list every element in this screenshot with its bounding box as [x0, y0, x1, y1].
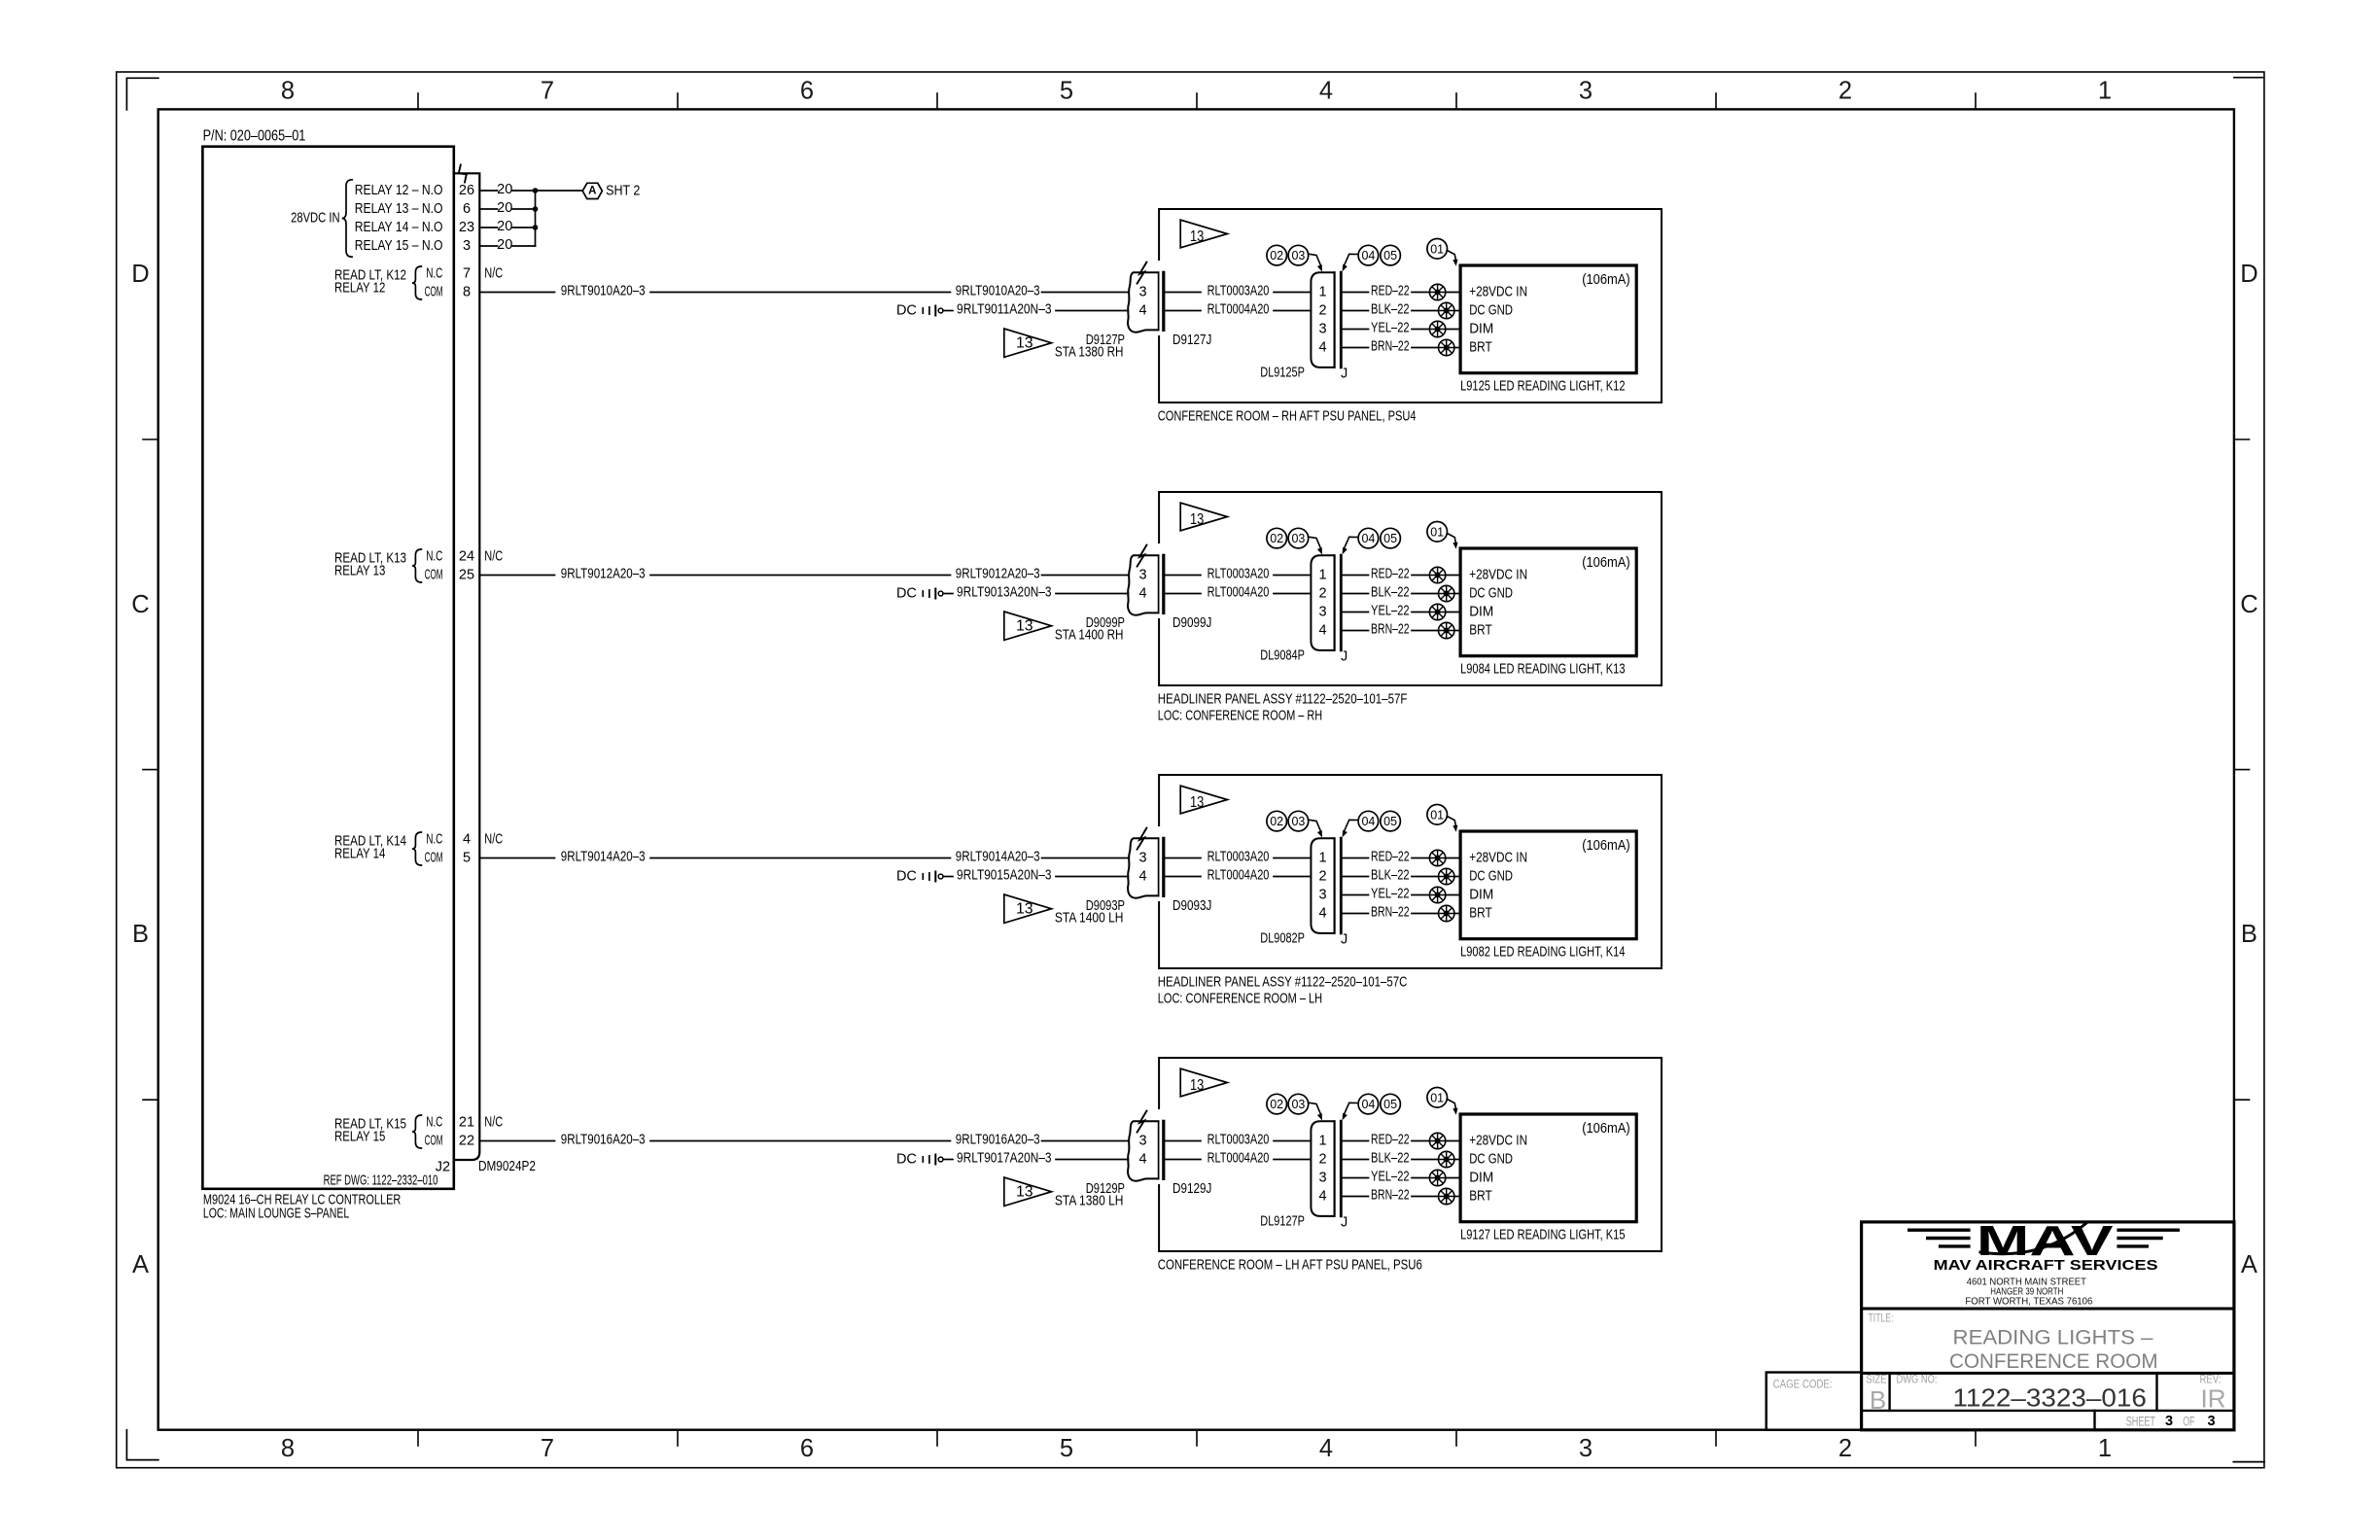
svg-text:8: 8 [281, 78, 295, 105]
wire RED-22 segment [1342, 575, 1369, 577]
shield termination symbol on YEL-22 [1429, 887, 1445, 902]
zone tick right [2234, 769, 2250, 771]
connector DL9084P body [1311, 555, 1334, 650]
wire 9RLT9012A20-3 continues [650, 575, 951, 577]
wire RLT0003A20 to DL connector [1274, 292, 1311, 294]
svg-text:25: 25 [459, 568, 474, 583]
svg-text:D: D [2240, 261, 2257, 288]
wire pin 3 segment to bus [512, 245, 535, 247]
svg-text:4: 4 [1318, 906, 1326, 922]
svg-text:3: 3 [2165, 1414, 2173, 1429]
svg-text:9RLT9012A20–3: 9RLT9012A20–3 [561, 566, 646, 581]
shield termination symbol on BLK-22 [1439, 868, 1454, 884]
shield termination symbol on RED-22 [1429, 284, 1445, 299]
svg-text:SHT 2: SHT 2 [606, 183, 640, 198]
zone tick bottom [936, 1430, 938, 1446]
flag note 13 (station) [1004, 1177, 1052, 1206]
shield termination symbol on BLK-22 [1439, 585, 1454, 601]
svg-text:2: 2 [1318, 1152, 1326, 1168]
enclosure panel box (HEADLINER PANEL ASSY #1122-2520-101-57F) [1159, 492, 1662, 685]
wire YEL-22 into LED light [1446, 1177, 1460, 1179]
svg-text:04: 04 [1361, 249, 1375, 262]
svg-text:13: 13 [1016, 1184, 1033, 1201]
wire YEL-22 segment [1342, 1177, 1369, 1179]
svg-text:DL9125P: DL9125P [1260, 366, 1305, 381]
zone tick left [143, 769, 158, 771]
connector D9099P torn-sheet symbol [1128, 555, 1158, 614]
svg-text:+28VDC IN: +28VDC IN [1469, 851, 1527, 866]
zone tick top [677, 93, 679, 109]
svg-text:20: 20 [497, 200, 512, 216]
flag note 13 (panel) [1180, 786, 1227, 814]
wire RED-22 into LED light [1446, 292, 1460, 294]
svg-text:CAGE CODE:: CAGE CODE: [1773, 1380, 1833, 1391]
svg-text:02: 02 [1270, 532, 1283, 545]
leader from balloon 04 [1345, 537, 1358, 547]
svg-text:DL9084P: DL9084P [1260, 648, 1305, 664]
wire BLK-22 to shield symbol [1412, 876, 1439, 878]
svg-text:N.C: N.C [426, 832, 442, 848]
wire YEL-22 into LED light [1446, 894, 1460, 896]
svg-text:BRN–22: BRN–22 [1371, 1187, 1410, 1203]
svg-text:RLT0004A20: RLT0004A20 [1207, 1150, 1270, 1166]
connector DL9082P body [1311, 838, 1334, 933]
zone tick bottom [1455, 1430, 1457, 1446]
LED reading light box L9125 [1460, 265, 1636, 373]
wire RLT0003A20 to DL connector [1274, 857, 1311, 859]
wire RLT0003A20 segment [1166, 575, 1201, 577]
size cell divider [1888, 1373, 1890, 1411]
wire RLT0004A20 segment [1166, 1159, 1201, 1161]
wire pin 23 segment [479, 227, 497, 228]
svg-text:DIM: DIM [1469, 1171, 1493, 1186]
svg-text:1: 1 [1318, 285, 1326, 300]
svg-text:1: 1 [1318, 1134, 1326, 1149]
leader from balloon 03 [1309, 537, 1321, 548]
item balloon 03 [1288, 245, 1309, 265]
svg-text:B: B [2241, 921, 2257, 948]
svg-text:L9125 LED READING LIGHT, K12: L9125 LED READING LIGHT, K12 [1460, 379, 1625, 395]
wire BRN-22 segment [1342, 630, 1369, 632]
svg-text:YEL–22: YEL–22 [1371, 886, 1410, 901]
svg-text:9RLT9015A20N–3: 9RLT9015A20N–3 [957, 867, 1052, 883]
wire RED-22 into LED light [1446, 857, 1460, 859]
break symbol on torn-sheet connector [1137, 262, 1147, 284]
item balloon 04 [1358, 528, 1379, 548]
svg-text:RELAY 13: RELAY 13 [334, 564, 385, 579]
svg-text:D: D [131, 261, 149, 288]
item balloon 05 [1381, 811, 1401, 831]
svg-text:5: 5 [463, 851, 471, 866]
wire RED-22 to shield symbol [1412, 575, 1429, 577]
svg-text:RLT0003A20: RLT0003A20 [1207, 849, 1270, 864]
connector interface bars D9129P/D9129J [1158, 1121, 1160, 1178]
item balloon 05 [1381, 245, 1401, 265]
leader from balloon 04 [1345, 254, 1358, 264]
svg-text:D9093J: D9093J [1172, 898, 1211, 914]
svg-text:N/C: N/C [484, 1115, 503, 1131]
wire BLK-22 segment [1342, 1159, 1369, 1161]
svg-text:7: 7 [541, 78, 554, 105]
wire from DC symbol [943, 310, 953, 312]
wire 9RLT9012A20-3 from controller [479, 575, 554, 577]
item balloon 03 [1288, 1094, 1309, 1114]
break symbol at strip top [459, 165, 467, 183]
wire RED-22 segment [1342, 292, 1369, 294]
wire BRN-22 into LED light [1454, 913, 1460, 915]
corner trim mark bottom-right [2233, 1461, 2264, 1463]
wire YEL-22 into LED light [1446, 329, 1460, 331]
svg-text:SIZE: SIZE [1866, 1375, 1886, 1386]
svg-text:N.C: N.C [426, 266, 442, 282]
svg-text:1: 1 [2098, 78, 2112, 105]
connector D9129P torn-sheet symbol [1128, 1121, 1158, 1180]
svg-text:RELAY 15 – N.O: RELAY 15 – N.O [355, 238, 443, 254]
svg-text:N/C: N/C [484, 832, 503, 848]
svg-text:+28VDC IN: +28VDC IN [1469, 285, 1527, 300]
enclosure panel box (HEADLINER PANEL ASSY #1122-2520-101-57C) [1159, 775, 1662, 968]
svg-text:9RLT9010A20–3: 9RLT9010A20–3 [561, 283, 646, 298]
item balloon 04 [1358, 811, 1379, 831]
svg-text:RLT0004A20: RLT0004A20 [1207, 867, 1270, 883]
svg-text:LOC: MAIN LOUNGE S–PANEL: LOC: MAIN LOUNGE S–PANEL [203, 1207, 349, 1222]
svg-text:C: C [131, 591, 149, 618]
flag note 13 (panel) [1180, 220, 1227, 248]
svg-text:A: A [588, 186, 596, 197]
svg-text:01: 01 [1430, 525, 1444, 539]
leader from balloon 03 [1309, 254, 1321, 265]
wire 9RLT9010A20-3 continues [650, 292, 951, 294]
connector D9127P torn-sheet symbol [1128, 272, 1158, 332]
item balloon 04 [1358, 245, 1379, 265]
title block line above dwg row [1862, 1372, 2234, 1375]
wire 9RLT9013A20N-3 to connector [1056, 593, 1129, 595]
wire YEL-22 segment [1342, 612, 1369, 613]
svg-text:RLT0003A20: RLT0003A20 [1207, 566, 1270, 581]
item balloon 01 [1427, 805, 1448, 825]
svg-text:RED–22: RED–22 [1371, 283, 1410, 298]
svg-text:21: 21 [459, 1115, 474, 1131]
svg-text:HEADLINER PANEL ASSY #1122–252: HEADLINER PANEL ASSY #1122–2520–101–57C [1158, 974, 1408, 990]
brace for K14 contacts [412, 832, 422, 865]
svg-text:DIM: DIM [1469, 605, 1493, 620]
svg-text:01: 01 [1430, 1091, 1444, 1104]
wire BRN-22 to shield symbol [1412, 630, 1439, 632]
brace for K15 contacts [412, 1115, 422, 1148]
wire RED-22 to shield symbol [1412, 1140, 1429, 1142]
svg-text:BLK–22: BLK–22 [1371, 867, 1410, 883]
svg-text:4: 4 [1139, 869, 1147, 885]
svg-text:9RLT9012A20–3: 9RLT9012A20–3 [956, 566, 1040, 581]
svg-text:8: 8 [281, 1435, 295, 1462]
zone tick top [1196, 93, 1198, 109]
svg-text:4: 4 [1139, 1152, 1147, 1168]
wire RLT0004A20 to DL connector [1274, 1159, 1311, 1161]
svg-text:BLK–22: BLK–22 [1371, 584, 1410, 600]
svg-text:BRT: BRT [1469, 340, 1492, 356]
svg-text:1122–3323–016: 1122–3323–016 [1953, 1382, 2147, 1412]
svg-text:BLK–22: BLK–22 [1371, 1150, 1410, 1166]
svg-text:01: 01 [1430, 242, 1444, 256]
svg-text:9RLT9017A20N–3: 9RLT9017A20N–3 [957, 1150, 1052, 1166]
svg-text:6: 6 [800, 78, 814, 105]
svg-text:20: 20 [497, 182, 512, 197]
leader from balloon 01 [1447, 534, 1455, 543]
leader from balloon 01 [1447, 817, 1455, 826]
svg-text:20: 20 [497, 219, 512, 234]
svg-text:9RLT9011A20N–3: 9RLT9011A20N–3 [957, 301, 1052, 317]
svg-text:03: 03 [1291, 249, 1305, 262]
svg-text:04: 04 [1361, 1098, 1375, 1111]
leader from balloon 03 [1309, 820, 1321, 831]
svg-text:13: 13 [1190, 1077, 1204, 1094]
svg-text:9RLT9016A20–3: 9RLT9016A20–3 [956, 1132, 1040, 1147]
svg-text:4: 4 [1318, 340, 1326, 356]
zone tick bottom [417, 1430, 419, 1446]
svg-text:BRT: BRT [1469, 906, 1492, 922]
svg-text:OF: OF [2183, 1414, 2194, 1428]
wire BRN-22 to shield symbol [1412, 913, 1439, 915]
break symbol on torn-sheet connector [1137, 1111, 1147, 1133]
svg-text:03: 03 [1291, 815, 1305, 828]
DC ground stack symbol [922, 1157, 924, 1162]
junction dot row 23 [533, 225, 539, 230]
wire 9RLT9016A20-3 from controller [479, 1140, 554, 1142]
shield termination symbol on BLK-22 [1439, 302, 1454, 318]
svg-text:N/C: N/C [484, 266, 503, 282]
svg-text:3: 3 [1139, 1134, 1147, 1149]
connector DL9127P body [1311, 1121, 1334, 1216]
wire 9RLT9015A20N-3 to connector [1056, 876, 1129, 878]
wire YEL-22 to shield symbol [1412, 329, 1429, 331]
wire BRN-22 into LED light [1454, 347, 1460, 349]
svg-text:DIM: DIM [1469, 322, 1493, 337]
flag note 13 (station) [1004, 612, 1052, 640]
wire RLT0004A20 segment [1166, 593, 1201, 595]
svg-text:3: 3 [1579, 78, 1592, 105]
svg-text:3: 3 [463, 238, 471, 254]
svg-text:CONFERENCE ROOM – RH AFT PSU P: CONFERENCE ROOM – RH AFT PSU PANEL, PSU4 [1158, 408, 1417, 424]
svg-text:CONFERENCE ROOM – LH AFT PSU: CONFERENCE ROOM – LH AFT PSU PANEL, PSU6 [1158, 1257, 1422, 1273]
svg-text:7: 7 [463, 266, 471, 282]
svg-text:DC GND: DC GND [1469, 1152, 1513, 1168]
wire 9RLT9010A20-3 to connector [1042, 292, 1129, 294]
svg-text:YEL–22: YEL–22 [1371, 320, 1410, 335]
wire BLK-22 into LED light [1454, 876, 1460, 878]
svg-text:RELAY 14: RELAY 14 [334, 847, 385, 862]
bus wire vertical [535, 191, 537, 246]
svg-text:13: 13 [1016, 901, 1033, 918]
corner trim mark bottom-left [126, 1430, 158, 1460]
svg-text:5: 5 [1060, 78, 1073, 105]
svg-text:N.C: N.C [426, 1115, 442, 1131]
shield termination symbol on RED-22 [1429, 567, 1445, 582]
svg-text:2: 2 [1838, 78, 1852, 105]
title block line under dwg row [1862, 1410, 2234, 1412]
svg-text:LOC: CONFERENCE ROOM – LH: LOC: CONFERENCE ROOM – LH [1158, 991, 1322, 1006]
item balloon 02 [1267, 1094, 1287, 1114]
svg-text:3: 3 [1139, 851, 1147, 866]
svg-text:COM: COM [425, 285, 443, 300]
enclosure panel box (CONFERENCE ROOM - LH AFT PSU PANEL, PSU6) [1159, 1058, 1662, 1251]
svg-text:20: 20 [497, 237, 512, 253]
svg-text:02: 02 [1270, 249, 1283, 262]
wire BLK-22 to shield symbol [1412, 1159, 1439, 1161]
wire BLK-22 segment [1342, 876, 1369, 878]
connector D9093P torn-sheet symbol [1128, 838, 1158, 897]
zone tick top [1455, 93, 1457, 109]
flag note 13 (panel) [1180, 1068, 1227, 1097]
svg-text:1: 1 [1318, 568, 1326, 583]
shield termination symbol on BRN-22 [1439, 905, 1454, 921]
wire RLT0004A20 segment [1166, 310, 1201, 312]
svg-text:J: J [1341, 1214, 1347, 1230]
svg-text:04: 04 [1361, 815, 1375, 828]
zone tick left [143, 438, 158, 440]
svg-text:3: 3 [1318, 605, 1326, 620]
svg-text:D9099J: D9099J [1172, 615, 1211, 631]
svg-text:7: 7 [541, 1435, 554, 1462]
svg-text:RELAY 13 – N.O: RELAY 13 – N.O [355, 201, 443, 217]
svg-text:N/C: N/C [484, 549, 503, 565]
wire pin 6 segment to bus [512, 208, 535, 210]
svg-text:REF DWG: 1122–2332–010: REF DWG: 1122–2332–010 [324, 1173, 438, 1189]
corner trim mark top-left [126, 78, 158, 110]
svg-text:05: 05 [1383, 1098, 1397, 1111]
connector interface bars DL/J [1334, 555, 1336, 650]
svg-text:02: 02 [1270, 1098, 1283, 1111]
wire 9RLT9014A20-3 from controller [479, 857, 554, 859]
shield termination symbol on RED-22 [1429, 850, 1445, 865]
wire BLK-22 to shield symbol [1412, 593, 1439, 595]
shield termination symbol on YEL-22 [1429, 604, 1445, 619]
wire BRN-22 segment [1342, 347, 1369, 349]
junction dot row 6 [533, 206, 539, 212]
MAV logo speed lines left [1909, 1228, 1969, 1231]
shield termination symbol on BRN-22 [1439, 1188, 1454, 1204]
wire RLT0003A20 to DL connector [1274, 575, 1311, 577]
wire BRN-22 into LED light [1454, 1196, 1460, 1198]
item balloon 01 [1427, 522, 1448, 542]
svg-text:RLT0003A20: RLT0003A20 [1207, 1132, 1270, 1147]
cage code box [1767, 1373, 1862, 1430]
svg-text:RLT0003A20: RLT0003A20 [1207, 283, 1270, 298]
wire BLK-22 segment [1342, 593, 1369, 595]
wire from DC symbol [943, 1159, 953, 1161]
wire RLT0003A20 to DL connector [1274, 1140, 1311, 1142]
svg-text:MAV AIRCRAFT SERVICES: MAV AIRCRAFT SERVICES [1934, 1257, 2158, 1274]
flag note 13 (panel) [1180, 503, 1227, 531]
item balloon 02 [1267, 528, 1287, 548]
svg-text:4: 4 [1318, 1189, 1326, 1205]
svg-text:6: 6 [800, 1435, 814, 1462]
off-sheet connector flag A [582, 183, 602, 198]
item balloon 01 [1427, 1088, 1448, 1108]
wire BRN-22 segment [1342, 1196, 1369, 1198]
svg-text:D9129J: D9129J [1172, 1181, 1211, 1197]
item balloon 02 [1267, 811, 1287, 831]
svg-text:03: 03 [1291, 532, 1305, 545]
svg-text:RLT0004A20: RLT0004A20 [1207, 584, 1270, 600]
wire BLK-22 into LED light [1454, 593, 1460, 595]
svg-text:9RLT9013A20N–3: 9RLT9013A20N–3 [957, 584, 1052, 600]
svg-text:DL9127P: DL9127P [1260, 1214, 1305, 1230]
svg-text:13: 13 [1016, 618, 1033, 635]
svg-text:05: 05 [1383, 249, 1397, 262]
svg-text:4: 4 [1318, 623, 1326, 639]
svg-text:RED–22: RED–22 [1371, 566, 1410, 581]
svg-text:RED–22: RED–22 [1371, 849, 1410, 864]
svg-text:RELAY 15: RELAY 15 [334, 1130, 385, 1145]
wire RED-22 segment [1342, 857, 1369, 859]
svg-text:DWG NO:: DWG NO: [1897, 1375, 1938, 1386]
DC ground stack symbol [922, 591, 924, 596]
svg-text:4: 4 [1319, 1435, 1333, 1462]
wire BLK-22 segment [1342, 310, 1369, 312]
svg-text:26: 26 [459, 183, 474, 198]
LED reading light box L9127 [1460, 1114, 1636, 1222]
svg-text:DC GND: DC GND [1469, 303, 1513, 319]
svg-text:C: C [2240, 591, 2257, 618]
svg-text:P/N: 020–0065–01: P/N: 020–0065–01 [203, 128, 306, 145]
svg-text:D9127J: D9127J [1172, 332, 1211, 348]
svg-text:DC GND: DC GND [1469, 869, 1513, 885]
svg-text:FORT WORTH, TEXAS 76106: FORT WORTH, TEXAS 76106 [1965, 1297, 2092, 1308]
svg-text:DM9024P2: DM9024P2 [478, 1159, 536, 1174]
connector interface bars D9127P/D9127J [1158, 272, 1160, 330]
svg-text:BLK–22: BLK–22 [1371, 301, 1410, 317]
shield termination symbol on YEL-22 [1429, 1170, 1445, 1185]
wire RLT0004A20 segment [1166, 876, 1201, 878]
corner trim mark top-right [2234, 77, 2262, 79]
wire 9RLT9014A20-3 to connector [1042, 857, 1129, 859]
wire RED-22 segment [1342, 1140, 1369, 1142]
svg-text:STA 1380 RH: STA 1380 RH [1055, 344, 1124, 360]
DC ground stack symbol [922, 308, 924, 313]
svg-text:3: 3 [2207, 1414, 2215, 1429]
LED reading light box L9084 [1460, 548, 1636, 656]
shield termination symbol on BLK-22 [1439, 1151, 1454, 1167]
svg-text:STA 1400 LH: STA 1400 LH [1055, 910, 1124, 926]
svg-text:+28VDC IN: +28VDC IN [1469, 1134, 1527, 1149]
zone tick bottom [1715, 1430, 1717, 1446]
zone tick bottom [1196, 1430, 1198, 1446]
svg-text:(106mA): (106mA) [1582, 1121, 1630, 1137]
zone tick bottom [677, 1430, 679, 1446]
svg-text:01: 01 [1430, 808, 1444, 822]
item balloon 05 [1381, 528, 1401, 548]
title block line under logo [1862, 1308, 2234, 1311]
svg-text:A: A [2241, 1251, 2257, 1278]
zone tick right [2234, 438, 2250, 440]
svg-text:9RLT9016A20–3: 9RLT9016A20–3 [561, 1132, 646, 1147]
brace for K12 contacts [412, 266, 422, 299]
break symbol on torn-sheet connector [1137, 828, 1147, 850]
svg-text:DL9082P: DL9082P [1260, 931, 1305, 947]
brace for K13 contacts [412, 549, 422, 582]
svg-text:2: 2 [1838, 1435, 1852, 1462]
connector interface bars D9099P/D9099J [1158, 555, 1160, 612]
rev cell divider [2155, 1373, 2157, 1411]
wire from DC symbol [943, 876, 953, 878]
svg-text:COM: COM [425, 851, 443, 866]
wire RLT0004A20 to DL connector [1274, 310, 1311, 312]
zone tick right [2234, 1099, 2250, 1101]
leader from balloon 01 [1447, 1100, 1455, 1109]
svg-text:DC: DC [896, 1152, 917, 1168]
svg-text:BRN–22: BRN–22 [1371, 621, 1410, 637]
wire 9RLT9016A20-3 continues [650, 1140, 951, 1142]
